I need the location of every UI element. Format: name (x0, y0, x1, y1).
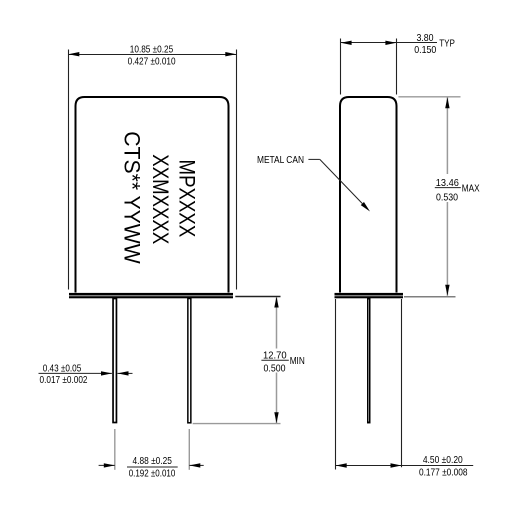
svg-text:0.192 ±0.010: 0.192 ±0.010 (129, 469, 176, 480)
front view marking text line MPXXXX (175, 160, 200, 238)
dimension 12.70 / 0.500 MIN lead length (193, 297, 305, 424)
svg-text:4.50 ±0.20: 4.50 ±0.20 (423, 455, 463, 466)
svg-text:0.177 ±0.008: 0.177 ±0.008 (419, 468, 468, 479)
label METAL CAN with leader arrow (257, 155, 370, 212)
svg-text:METAL CAN: METAL CAN (257, 155, 304, 166)
svg-text:XXMXXXX: XXMXXXX (148, 154, 173, 244)
svg-text:0.017 ±0.002: 0.017 ±0.002 (40, 375, 88, 386)
dimension 4.88 / 0.192 lead spacing (99, 429, 204, 480)
svg-text:3.80: 3.80 (416, 33, 433, 44)
dimension 3.80 / 0.150 TYP can thickness (341, 33, 455, 95)
front view base flange (69, 293, 233, 298)
svg-text:MAX: MAX (462, 183, 480, 194)
front view can body (76, 97, 229, 293)
side view base flange (335, 293, 404, 298)
svg-text:0.500: 0.500 (264, 363, 286, 374)
front view left lead (113, 299, 116, 423)
svg-text:MPXXXX: MPXXXX (175, 160, 200, 238)
front view marking text line CTS** YYWW (120, 131, 145, 264)
side view lead (368, 299, 370, 423)
svg-text:0.43 ±0.05: 0.43 ±0.05 (43, 363, 82, 374)
svg-text:TYP: TYP (439, 39, 455, 50)
svg-text:4.88 ±0.25: 4.88 ±0.25 (133, 456, 173, 467)
svg-text:0.427 ±0.010: 0.427 ±0.010 (128, 56, 176, 67)
side view can body (340, 97, 397, 293)
dimension 13.46 / 0.530 MAX can height (398, 97, 479, 297)
svg-text:0.150: 0.150 (414, 45, 436, 56)
svg-text:10.85 ±0.25: 10.85 ±0.25 (130, 44, 174, 55)
front view marking text line XXMXXXX (148, 154, 173, 244)
svg-text:0.530: 0.530 (436, 192, 458, 203)
dimension 4.50 / 0.177 base flange width (336, 299, 474, 479)
front view right lead (188, 299, 191, 423)
dimension 0.43 / 0.017 lead diameter (39, 363, 133, 386)
dimension 10.85 / 0.427 can width (68, 44, 236, 289)
svg-text:MIN: MIN (290, 356, 305, 367)
svg-text:CTS** YYWW: CTS** YYWW (120, 131, 145, 264)
